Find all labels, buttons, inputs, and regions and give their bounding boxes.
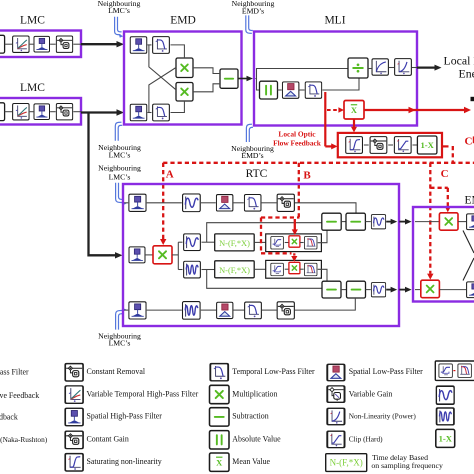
wire bbox=[368, 68, 371, 70]
svg-text:LMC’s: LMC’s bbox=[108, 6, 130, 15]
wire multiplier split bbox=[172, 254, 178, 256]
svg-text:MLI: MLI bbox=[324, 15, 345, 27]
arrow EMD to MLI bbox=[238, 78, 247, 80]
RTC feedback multiplier (A) bbox=[153, 246, 172, 264]
LMC1 photoreceptor box (cut) bbox=[0, 35, 5, 53]
block RTC bbox=[123, 184, 399, 326]
legend icon variable temporal high-pass bbox=[66, 386, 83, 403]
red dashed riser from group output bbox=[452, 146, 454, 163]
wire bbox=[201, 309, 216, 311]
gated row1 multiplier bbox=[289, 236, 300, 247]
svg-text:Absolute Value: Absolute Value bbox=[232, 435, 281, 444]
svg-text:C: C bbox=[441, 168, 449, 180]
wire bbox=[262, 202, 277, 204]
wire sine2 tap to sub2a bbox=[202, 269, 215, 271]
wire bbox=[341, 221, 346, 223]
EMD2 multiplier top bbox=[439, 213, 458, 230]
bracket neighbouring LMCs from EMD bottom bbox=[115, 122, 122, 141]
svg-text:Spatial High-Pass Filter: Spatial High-Pass Filter bbox=[87, 412, 163, 421]
svg-text:RTC: RTC bbox=[246, 168, 268, 180]
legend icon mean value bbox=[210, 453, 230, 471]
svg-text:N-(F,*X): N-(F,*X) bbox=[219, 239, 250, 248]
wire bbox=[147, 202, 182, 204]
wire bbox=[458, 221, 466, 223]
MLI division bbox=[348, 58, 368, 78]
wire bracket to RTC row1 HP bbox=[124, 202, 128, 204]
svg-text:LMC: LMC bbox=[20, 82, 45, 94]
RTC sub2a bbox=[322, 281, 341, 298]
block LMC1 bbox=[0, 31, 81, 58]
svg-text:Subtraction: Subtraction bbox=[232, 412, 268, 421]
svg-text:Local Optic: Local Optic bbox=[278, 130, 316, 139]
gated row2 clip bbox=[271, 263, 284, 276]
gated row1 clip bbox=[271, 236, 284, 249]
wire bbox=[257, 79, 260, 91]
svg-text:N-(F,*X): N-(F,*X) bbox=[219, 266, 250, 275]
RTC row1 temporal low-pass bbox=[244, 195, 261, 212]
wire bbox=[413, 144, 418, 146]
LMC2 Naka-Rushton bbox=[13, 103, 29, 119]
wire bbox=[364, 144, 369, 146]
red arrow into gated row2 multiplier bbox=[293, 253, 295, 255]
wire EMD2 cross bbox=[463, 231, 474, 254]
feedback clip bbox=[394, 137, 411, 154]
EMD spatial high-pass (top) bbox=[130, 37, 147, 54]
wire MLI input split bbox=[256, 69, 349, 79]
svg-text:Neighbouring: Neighbouring bbox=[98, 164, 141, 173]
wire bbox=[254, 241, 266, 243]
MLI mean value box bbox=[344, 101, 364, 120]
svg-text:Clip (Hard): Clip (Hard) bbox=[349, 435, 383, 444]
red arrow into gated row1 multiplier bbox=[294, 219, 296, 230]
RTC sub1a bbox=[322, 213, 341, 230]
svg-text:X: X bbox=[216, 458, 223, 468]
RTC row3 spatial high-pass bbox=[129, 302, 146, 319]
bracket neighbouring LMCs into RTC row3 bbox=[116, 310, 123, 329]
svg-text:Saturating non-linearity: Saturating non-linearity bbox=[87, 457, 162, 466]
bracket neighbouring LMCs into RTC row1 bbox=[116, 183, 123, 203]
svg-text:X: X bbox=[351, 105, 358, 115]
svg-text:EMD’s: EMD’s bbox=[241, 151, 263, 160]
svg-text:n(Naka-Rushton): n(Naka-Rushton) bbox=[0, 435, 48, 444]
LMC1 spatial high-pass bbox=[34, 36, 50, 52]
block MLI bbox=[254, 32, 417, 126]
svg-text:LMC’s: LMC’s bbox=[109, 172, 131, 181]
legend icon 1-X bbox=[436, 429, 455, 447]
RTC sub1b bbox=[346, 213, 365, 230]
feedback constant gain bbox=[370, 137, 387, 154]
wire bbox=[262, 309, 277, 311]
arrows RTC out row1 bbox=[386, 221, 391, 223]
EMD temporal low-pass (bottom) bbox=[153, 104, 170, 121]
wire bbox=[389, 67, 394, 69]
svg-text:Variable Temporal High-Pass Fi: Variable Temporal High-Pass Filter bbox=[87, 389, 199, 398]
legend icon absolute value bbox=[210, 431, 230, 449]
red dashed gate box (B) bbox=[261, 216, 300, 218]
EMD multiplier M1 bbox=[176, 58, 193, 78]
wire MLI lp to divider bbox=[322, 78, 359, 90]
wire row3 to sub2b bbox=[295, 298, 355, 310]
wire bbox=[146, 254, 153, 256]
legend icon saturating non-linearity bbox=[66, 454, 83, 471]
RTC N-(F,*X) box 1 bbox=[215, 234, 255, 251]
arrow into RTC middle input bbox=[109, 254, 116, 256]
legend icon spatial low-pass bbox=[328, 364, 344, 380]
legend icon composite gated row (cut) bbox=[435, 361, 474, 380]
red arrow mean output right (wide-field) bbox=[364, 109, 467, 111]
wire bbox=[278, 89, 282, 91]
arrow LMC2 to EMD bbox=[81, 111, 118, 113]
svg-text:A: A bbox=[166, 168, 174, 180]
wire bbox=[388, 144, 393, 146]
wire bbox=[50, 111, 56, 113]
legend icon temporal low-pass bbox=[211, 364, 228, 381]
EMD2 partial box bottom bbox=[467, 282, 474, 298]
wire bbox=[50, 43, 56, 45]
LMC2 variable gain bbox=[56, 104, 72, 120]
svg-text:B: B bbox=[303, 169, 311, 181]
svg-text:Non-Linearity (Power): Non-Linearity (Power) bbox=[349, 412, 417, 421]
feedback non-linearity bbox=[346, 137, 363, 154]
wire bbox=[73, 111, 81, 113]
red wire lp tap down bbox=[324, 92, 326, 146]
RTC N-(F,*X) box 2 bbox=[215, 261, 255, 278]
red arrow into feedback group bbox=[325, 145, 331, 147]
red wire mean box down bbox=[353, 119, 355, 128]
RTC row3 temporal low-pass bbox=[245, 302, 262, 319]
RTC row1 spatial high-pass bbox=[129, 194, 146, 211]
LMC1 Naka-Rushton U-A bbox=[13, 36, 29, 52]
block EMD2 (cut) bbox=[413, 207, 474, 302]
svg-text:Ener: Ener bbox=[459, 66, 474, 80]
red dashed drop C bbox=[429, 163, 431, 274]
red feedback group box bbox=[338, 133, 442, 157]
wire bbox=[5, 111, 12, 113]
RTC row1 spatial low-pass bbox=[216, 195, 232, 211]
RTC row3 temporal band (dense sine) bbox=[182, 302, 200, 320]
RTC out sine 2 bbox=[371, 283, 385, 297]
wire LMC2 branch down to RTC bbox=[89, 113, 110, 256]
legend icon clip hard bbox=[328, 431, 344, 447]
wire bbox=[366, 289, 371, 291]
EMD multiplier M2 bbox=[176, 83, 193, 102]
arrow LMC1 to EMD bbox=[81, 43, 118, 45]
arrows RTC out row2 bbox=[386, 289, 391, 291]
wire sine1 tap to sub1a bbox=[202, 241, 215, 243]
RTC out sine 1 bbox=[371, 215, 385, 229]
svg-text:Flow Feedback: Flow Feedback bbox=[273, 138, 322, 147]
wire bbox=[300, 268, 304, 270]
wire bbox=[147, 112, 151, 114]
wire M1 to subtraction bbox=[193, 68, 220, 74]
legend icon sine high freq bbox=[437, 408, 454, 425]
wire M2 to subtraction bbox=[193, 84, 220, 92]
block EMD bbox=[124, 32, 242, 125]
legend icon time delay N-(F,*X) bbox=[326, 454, 367, 472]
wire bbox=[201, 202, 216, 204]
svg-text:Variable Gain: Variable Gain bbox=[349, 389, 393, 398]
gated row2 multiplier bbox=[289, 262, 300, 273]
MLI absolute value bbox=[260, 81, 278, 99]
wire bbox=[300, 242, 304, 244]
LMC2 photoreceptor box (cut) bbox=[0, 103, 5, 121]
wire bbox=[285, 242, 289, 244]
wire gated row2 out to sub2a bbox=[318, 269, 327, 281]
svg-text:Spatial Low-Pass Filter: Spatial Low-Pass Filter bbox=[349, 367, 423, 376]
wire bbox=[73, 43, 81, 45]
MLI temporal low-pass bbox=[305, 82, 321, 98]
wire bbox=[147, 44, 151, 46]
block LMC2 bbox=[0, 98, 81, 125]
gated row2 temporal low-pass bbox=[304, 263, 317, 276]
svg-text:C: C bbox=[465, 135, 473, 147]
RTC middle spatial high-pass bbox=[129, 247, 145, 263]
wire row1 to sub1b bbox=[295, 203, 356, 213]
svg-text:1-X: 1-X bbox=[420, 140, 434, 150]
wire LMC1 internal bbox=[5, 43, 12, 45]
red dashed arrow into mean box bbox=[327, 109, 340, 111]
svg-text:EMD: EMD bbox=[170, 15, 196, 27]
svg-text:ve Feedback: ve Feedback bbox=[0, 391, 39, 400]
RTC gated row1 group bbox=[266, 234, 322, 252]
wire bbox=[147, 309, 182, 311]
svg-text:LMC’s: LMC’s bbox=[109, 150, 131, 159]
MLI non-linearity 1 bbox=[372, 59, 388, 75]
EMD spatial high-pass (bottom) bbox=[130, 104, 147, 121]
RTC row1 constant gain bbox=[277, 194, 294, 211]
wire bbox=[30, 111, 34, 113]
wire bracket to RTC row3 HP bbox=[124, 309, 128, 311]
wire EMD2 cross bbox=[463, 258, 474, 281]
svg-text:LMC: LMC bbox=[20, 15, 45, 27]
wire bbox=[234, 202, 244, 204]
svg-text:Constant Removal: Constant Removal bbox=[87, 367, 146, 376]
wire bbox=[234, 309, 245, 311]
wire bbox=[254, 268, 266, 270]
legend icon subtraction bbox=[210, 408, 230, 426]
RTC mid sine (low freq) bbox=[184, 234, 201, 251]
RTC mid sine (high freq) bbox=[184, 261, 201, 278]
wire bbox=[415, 289, 421, 291]
wire EMD top delayed path bbox=[171, 45, 185, 58]
bracket neighbouring LMCs into EMD top bbox=[115, 17, 122, 35]
feedback 1-X bbox=[417, 136, 437, 154]
legend icon variable gain bbox=[328, 386, 344, 402]
red wire group output bbox=[442, 145, 449, 147]
wire bbox=[285, 268, 289, 270]
svg-text:Contant Gain: Contant Gain bbox=[87, 435, 129, 444]
bracket neighbouring EMDs from MLI bottom bbox=[246, 124, 253, 142]
arrow MLI output bbox=[417, 66, 435, 68]
svg-text:Temporal Low-Pass Filter: Temporal Low-Pass Filter bbox=[232, 367, 315, 376]
EMD2 partial box top bbox=[467, 214, 474, 230]
red dashed drop A bbox=[162, 163, 164, 240]
LMC2 spatial high-pass bbox=[34, 104, 50, 120]
svg-text:1-X: 1-X bbox=[439, 434, 453, 444]
legend icon spatial high-pass bbox=[66, 408, 83, 425]
RTC row3 spatial low-pass bbox=[217, 302, 233, 318]
svg-text:Multiplication: Multiplication bbox=[232, 389, 277, 398]
wire EMD bottom delayed path bbox=[171, 101, 185, 113]
wire bbox=[439, 289, 466, 291]
EMD temporal low-pass (top) bbox=[153, 37, 170, 54]
LMC1 variable gain bbox=[56, 36, 72, 52]
RTC gated row2 group bbox=[266, 260, 322, 278]
MLI spatial low-pass bbox=[282, 82, 298, 98]
legend icon constant removal bbox=[66, 364, 83, 381]
wire bbox=[365, 221, 370, 223]
wire bbox=[300, 89, 305, 91]
EMD subtraction bbox=[220, 69, 238, 88]
wire bbox=[30, 43, 34, 45]
gated row1 temporal low-pass bbox=[304, 236, 317, 249]
wire gated row1 out to sub1a bbox=[318, 230, 327, 243]
bracket neighbouring EMDs into MLI bbox=[246, 15, 253, 33]
RTC sub2b bbox=[347, 281, 366, 298]
wire EMD cross bottom-to-M1 bbox=[149, 68, 176, 113]
wire bbox=[415, 221, 439, 223]
wire bbox=[412, 67, 417, 69]
svg-text:N-(F,*X): N-(F,*X) bbox=[330, 458, 363, 468]
EMD2 multiplier bottom bbox=[421, 280, 440, 298]
svg-text:edback: edback bbox=[0, 413, 18, 422]
legend icon multiplication bbox=[210, 385, 230, 403]
svg-text:EMD’s: EMD’s bbox=[242, 7, 264, 16]
red dashed feedback bus horizontal bbox=[163, 162, 474, 164]
svg-text:Mean Value: Mean Value bbox=[232, 457, 270, 466]
legend icon non-linearity power bbox=[328, 408, 344, 424]
svg-text:EM: EM bbox=[465, 194, 474, 206]
RTC row3 constant gain bbox=[277, 302, 294, 319]
legend icon sine low freq bbox=[436, 386, 454, 404]
MLI non-linearity 2 bbox=[395, 59, 412, 76]
red dashed drop B bbox=[298, 163, 300, 217]
svg-text:Pass Filter: Pass Filter bbox=[0, 367, 29, 376]
wire EMD cross top-to-M2 bbox=[149, 45, 176, 90]
red dashed jog to EMD2 top multiplier bbox=[430, 187, 448, 189]
svg-text:on sampling frequency: on sampling frequency bbox=[371, 461, 443, 470]
mark cut text top right bbox=[471, 97, 474, 101]
wire bbox=[341, 289, 347, 291]
legend icon contant gain bbox=[66, 431, 83, 448]
svg-text:LMC’s: LMC’s bbox=[109, 339, 131, 348]
RTC row1 temporal band (sine) bbox=[183, 194, 201, 212]
